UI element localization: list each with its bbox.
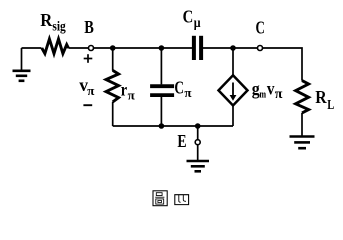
resistor r-pi [106, 48, 119, 126]
svg-text:R: R [40, 10, 53, 30]
svg-text:m: m [259, 88, 266, 100]
dependent current source gm*vpi [219, 48, 248, 126]
wire: left ground to Rsig [22, 47, 42, 49]
svg-text:B: B [84, 17, 94, 37]
capacitor C-pi [150, 48, 174, 126]
svg-text:π: π [87, 83, 94, 98]
caption: 圖 (drawn glyph) [153, 191, 167, 206]
svg-text:r: r [121, 80, 127, 100]
node B (open terminal) [89, 46, 94, 51]
junction node at B column (top of r-pi) [110, 45, 116, 51]
label C-pi [174, 77, 191, 99]
label C [256, 18, 265, 38]
ground (signal source, left) [13, 48, 31, 81]
label - (vpi polarity) [83, 104, 92, 106]
junction node bottom of C-pi [159, 123, 165, 129]
wire: RL to ground [301, 113, 303, 136]
svg-text:C: C [256, 18, 265, 38]
svg-text:μ: μ [194, 16, 201, 31]
resistor RL [296, 81, 309, 113]
caption: 四 (drawn glyph) [175, 195, 189, 205]
svg-text:C: C [174, 77, 184, 97]
label B [84, 17, 94, 37]
svg-text:π: π [275, 87, 283, 102]
svg-text:R: R [315, 87, 327, 107]
label Rsig [40, 10, 66, 33]
bottom wire (emitter rail) [113, 125, 233, 127]
svg-text:C: C [183, 6, 194, 26]
resistor Rsig [42, 39, 69, 54]
label r-pi [121, 80, 135, 103]
node C (open terminal) [258, 46, 263, 51]
label E [177, 131, 186, 151]
label gm vpi [252, 78, 283, 102]
label C-mu [183, 6, 201, 31]
junction node top of current source [230, 45, 236, 51]
wire: C-mu right plate to node C [203, 47, 258, 49]
ground (emitter) [187, 145, 210, 172]
svg-text:π: π [128, 87, 135, 102]
label + (vpi polarity) [84, 54, 93, 63]
label RL [315, 87, 334, 113]
wire: Rsig to node B [68, 47, 88, 49]
svg-text:v: v [267, 78, 275, 98]
junction node at E [195, 123, 201, 129]
label vpi [79, 75, 94, 98]
node E (open terminal) [197, 126, 199, 140]
svg-text:π: π [184, 85, 191, 100]
wire: node C to top-right corner, down to RL [262, 48, 302, 81]
capacitor C-mu [194, 36, 201, 60]
svg-text:sig: sig [52, 18, 66, 33]
ground (RL) [290, 137, 315, 149]
junction node top of C-pi [159, 45, 165, 51]
svg-text:E: E [177, 131, 186, 151]
svg-text:L: L [327, 98, 334, 113]
wire: node B to C-mu left plate [93, 47, 192, 49]
